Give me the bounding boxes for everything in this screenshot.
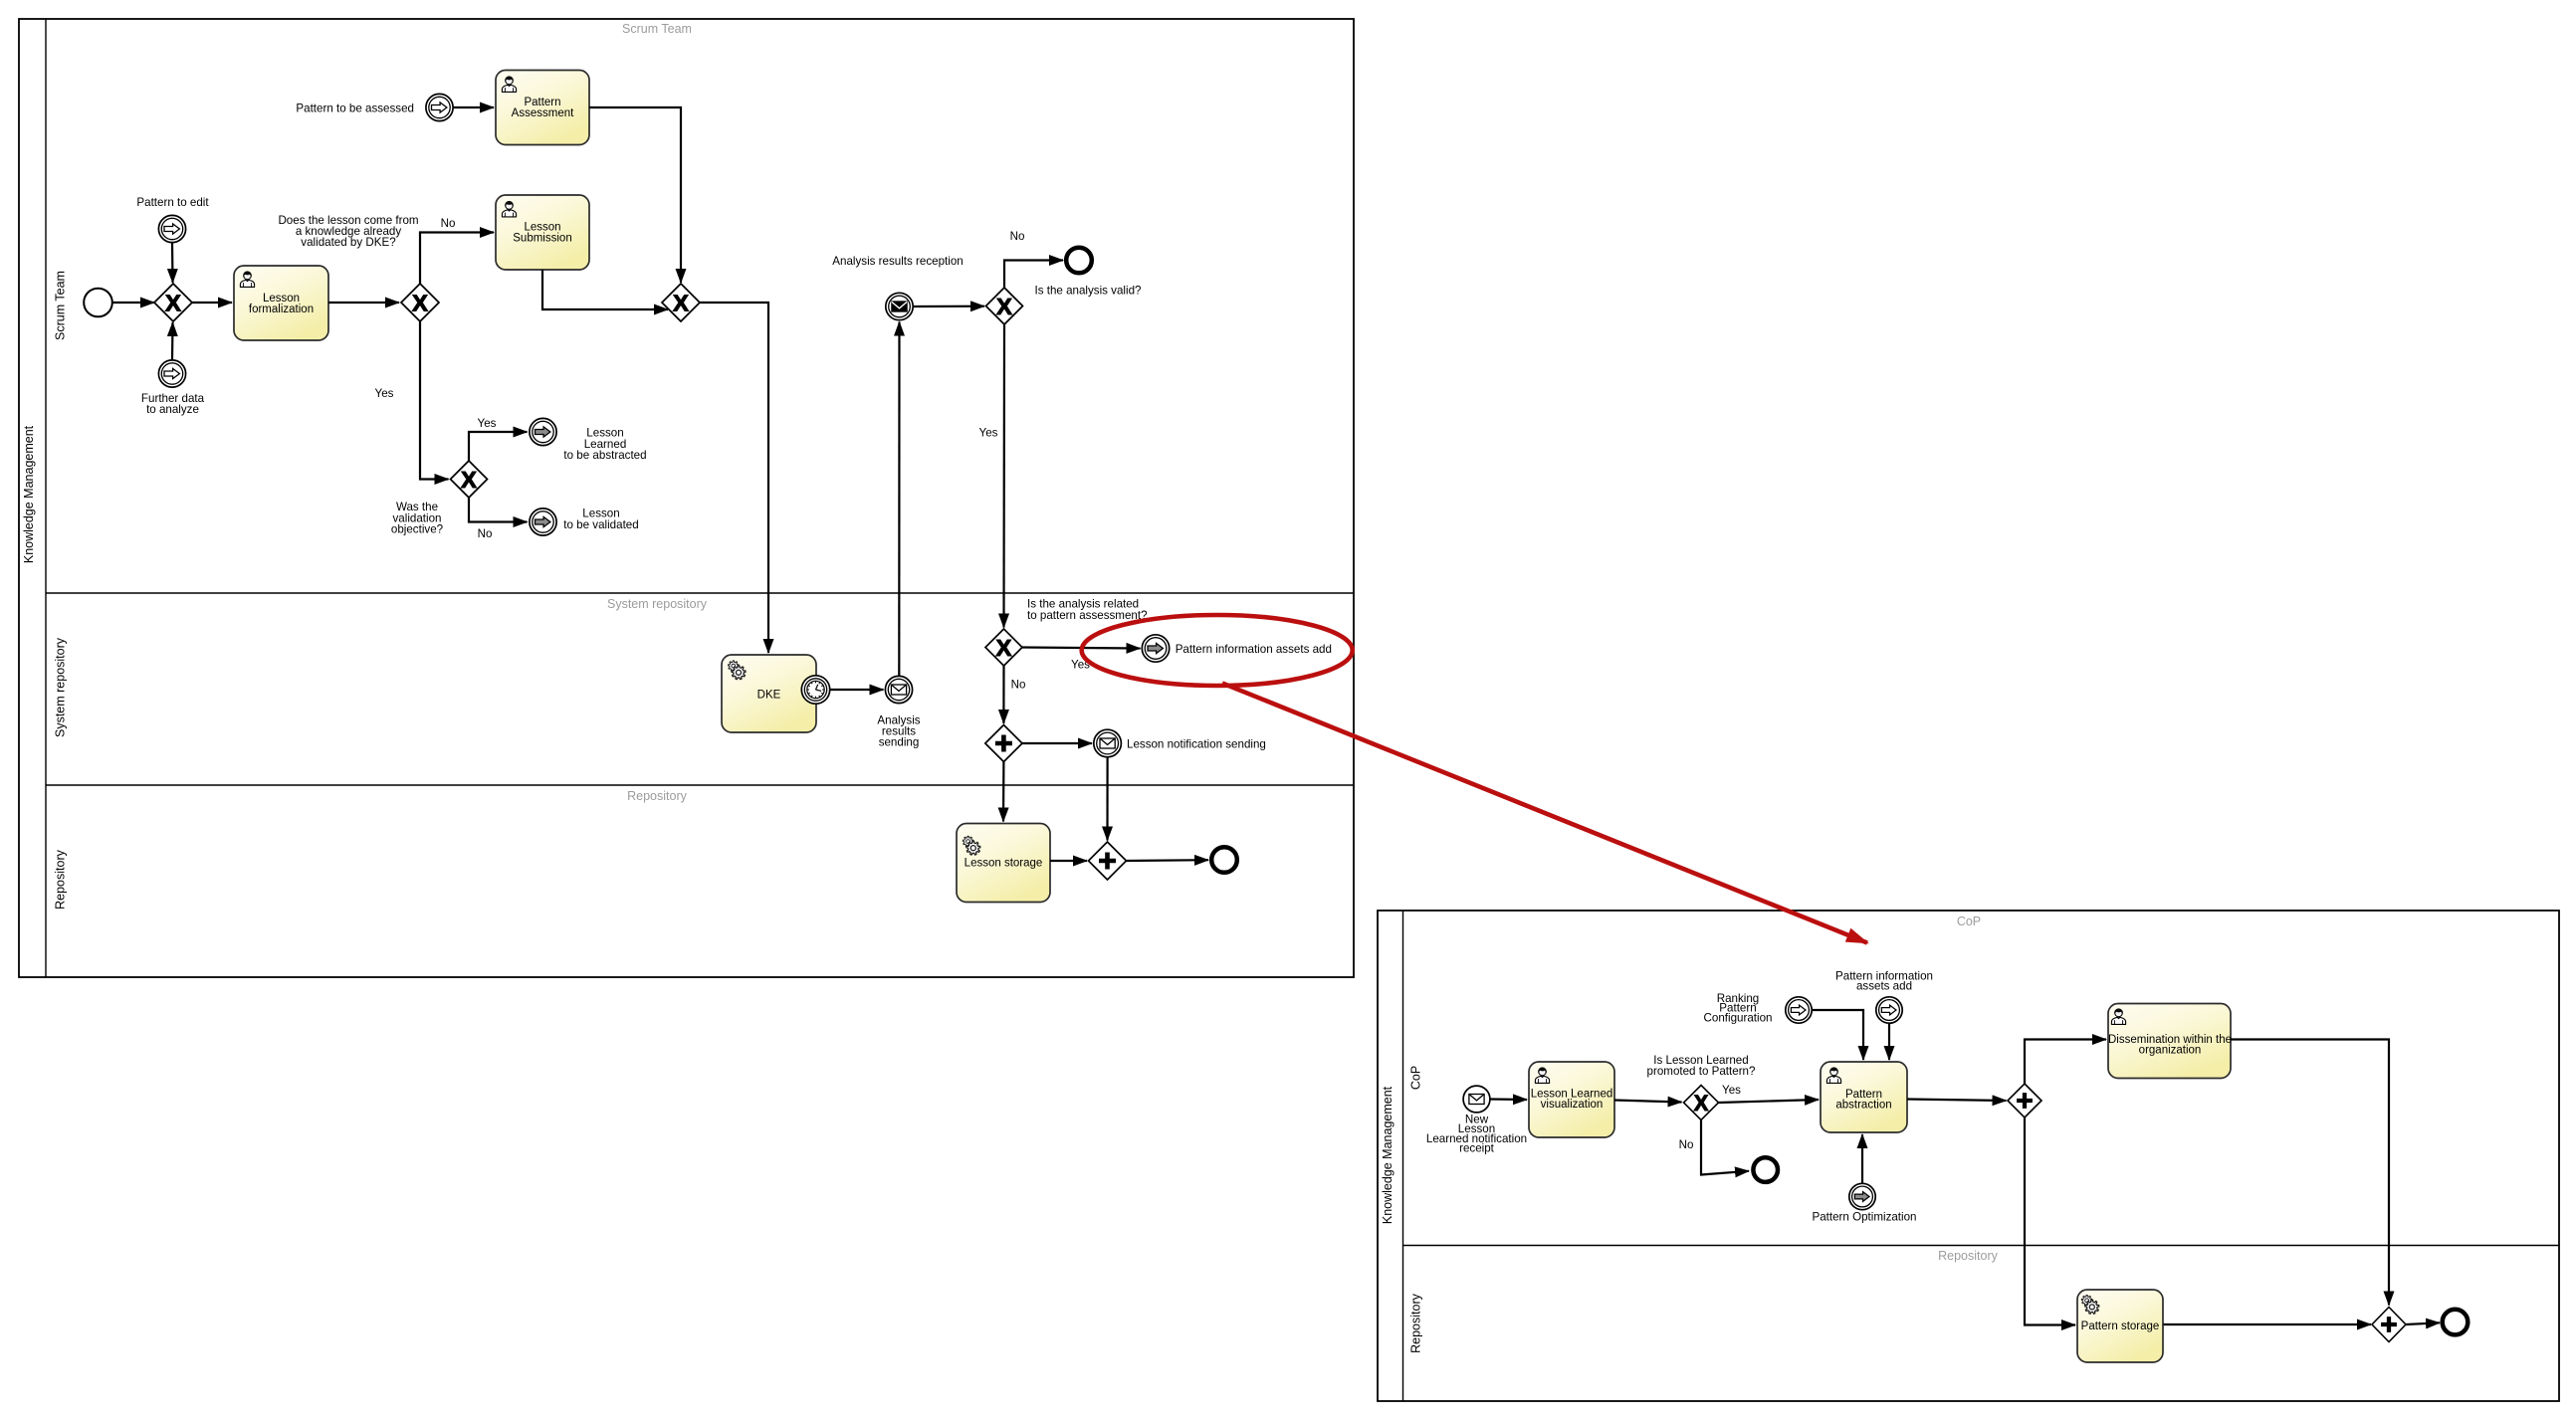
svg-text:Lesson storage: Lesson storage [965,858,1043,870]
lane Repository [46,785,1354,910]
svg-text:assets add: assets add [1856,979,1912,992]
wire Lesson formalization to G2 [328,302,399,304]
lane Repository (CoP pool) [1403,1246,2560,1353]
svg-text:Yes: Yes [1722,1084,1741,1097]
svg-text:Repository: Repository [1409,1293,1423,1352]
svg-text:Pattern to edit: Pattern to edit [136,196,209,209]
wire G6 to Lesson storage [1002,762,1005,822]
wire Ranking Pattern Configuration to Pattern abstraction [1812,1010,1863,1060]
link throw event Pattern information assets add [1142,635,1332,662]
wire G1 to Lesson formalization [192,302,232,304]
wire Pattern abstraction to G9 [1907,1100,2007,1102]
svg-text:Repository: Repository [627,789,687,803]
task Lesson formalization (user) [234,266,328,340]
svg-text:No: No [441,217,456,230]
message catch event Analysis results reception (filled envelope) [832,255,963,320]
svg-text:to pattern assessment?: to pattern assessment? [1027,609,1148,622]
label question Does the lesson come from a knowledge already validated by DKE? [278,214,418,249]
wire G7 to end event lesson stored [1127,859,1209,862]
wire G8 to end event not promoted (No) [1679,1120,1749,1175]
svg-text:Knowledge Management: Knowledge Management [22,425,36,563]
gateway G2 exclusive [401,284,439,321]
wire Dissemination within the organization to G10 [2231,1040,2389,1306]
message start event New Lesson Learned notification receipt [1426,1086,1527,1155]
wire start event to gateway G1 [112,302,154,304]
gateway G3 exclusive [662,284,700,321]
wire Pattern storage to G10 [2164,1323,2372,1325]
task Lesson Learned visualization (user) [1529,1062,1614,1137]
wire G8 to Pattern abstraction (Yes) [1719,1084,1820,1103]
wire Pattern information assets add to Pattern abstraction [1888,1023,1890,1060]
link throw event Lesson to be validated [530,508,639,536]
link catch event Pattern to be assessed [296,94,453,120]
boundary timer event on DKE [801,676,829,704]
svg-text:to analyze: to analyze [146,403,199,416]
wire Lesson storage to G7 [1050,860,1087,862]
svg-text:System repository: System repository [54,637,68,737]
end event analysis not valid [1066,248,1092,274]
wire G4 to Lesson to be validated (No) [469,498,528,540]
svg-text:Pattern information assets add: Pattern information assets add [1176,643,1332,656]
wire Further data to analyze to G1 [171,322,174,360]
link catch event Pattern information assets add (CoP) [1835,970,1933,1024]
task Pattern Assessment (user) [496,71,589,145]
task Pattern abstraction (user) [1821,1062,1907,1132]
wire Pattern to edit to G1 [171,243,174,283]
gateway Gvalid exclusive [986,285,1143,325]
gateway G1 exclusive [154,284,192,321]
task Dissemination within the organization (user) [2108,1004,2232,1079]
pool Knowledge Management (main process) [19,19,1354,977]
wire G5 to G6 (No) [1003,666,1025,723]
red highlight ellipse around Pattern information assets add [1082,615,1353,686]
svg-text:receipt: receipt [1459,1142,1495,1155]
svg-text:Pattern storage: Pattern storage [2081,1320,2160,1332]
gateway G9 parallel [2008,1084,2041,1117]
svg-text:abstraction: abstraction [1835,1099,1891,1111]
svg-text:Assessment: Assessment [512,107,574,119]
lane Scrum Team [54,22,692,340]
svg-text:Yes: Yes [478,417,497,430]
svg-text:DKE: DKE [757,690,781,702]
wire Gvalid to end event analysis not valid (No) [1004,230,1063,288]
link throw event Pattern Optimization [1812,1183,1916,1223]
message throw event Lesson notification sending [1094,729,1266,757]
svg-text:visualization: visualization [1541,1099,1604,1111]
svg-text:Lesson notification sending: Lesson notification sending [1127,738,1266,751]
svg-text:No: No [1010,230,1025,243]
svg-text:Configuration: Configuration [1704,1011,1773,1024]
wire G4 to Lesson Learned to be abstracted (Yes) [469,417,528,461]
wire Pattern Optimization to Pattern abstraction [1861,1134,1863,1183]
wire Gvalid to G5 (Yes) [979,324,1004,628]
svg-text:Repository: Repository [54,849,68,909]
lane System repository [46,593,1354,737]
end event not promoted [1753,1157,1778,1182]
gateway G10 parallel [2372,1308,2406,1342]
svg-text:CoP: CoP [1957,914,1981,928]
svg-text:System repository: System repository [607,597,708,611]
task Lesson storage (service) [957,824,1050,903]
svg-text:Pattern to be assessed: Pattern to be assessed [296,102,414,115]
task DKE (service) [722,655,816,732]
wire start to Lesson Learned visualization [1490,1098,1527,1101]
pool Knowledge Management (CoP process) [1378,911,2559,1401]
svg-text:to be abstracted: to be abstracted [563,449,646,462]
gateway G7 parallel [1089,842,1127,880]
label question Is the analysis related to pattern assessment? [1027,598,1148,623]
wire G3 to DKE [700,303,768,653]
svg-text:organization: organization [2139,1045,2202,1057]
wire Lesson Submission to G3 [542,270,668,309]
wire G9 to Pattern storage [2025,1117,2075,1325]
svg-text:No: No [1011,679,1026,692]
svg-text:Repository: Repository [1938,1249,1998,1263]
wire G5 to Pattern information assets add (Yes) [1022,648,1141,672]
svg-text:Is the analysis valid?: Is the analysis valid? [1035,285,1143,298]
lane CoP [1409,914,1982,1090]
svg-text:to be validated: to be validated [563,518,638,531]
label question Was the validation objective? [391,501,444,536]
gateway G4 exclusive [451,461,488,498]
svg-text:promoted to Pattern?: promoted to Pattern? [1647,1065,1756,1078]
svg-text:No: No [478,527,493,540]
link catch event Pattern to edit [136,196,209,243]
svg-text:formalization: formalization [249,304,314,315]
svg-text:Yes: Yes [979,427,998,440]
link catch event Further data to analyze [141,360,205,416]
svg-text:Knowledge Management: Knowledge Management [1381,1086,1395,1224]
message throw event Analysis results sending [877,676,920,748]
wire G2 to Lesson Submission (No) [420,217,494,284]
end event lesson stored [1211,847,1237,873]
svg-text:Pattern Optimization: Pattern Optimization [1812,1211,1916,1224]
start event [84,289,112,317]
gateway G6 parallel [985,725,1022,762]
svg-text:No: No [1679,1138,1694,1151]
wire Lesson notification sending to G7 [1106,757,1108,841]
gateway G5 exclusive [985,629,1022,666]
svg-text:Analysis results reception: Analysis results reception [832,255,963,268]
link throw event Lesson Learned to be abstracted [530,418,647,462]
wire Analysis results sending to Analysis results reception [898,322,900,677]
gateway G8 exclusive [1684,1086,1719,1120]
wire G10 to end event pattern stored [2406,1322,2440,1324]
link catch event Ranking Pattern Configuration [1704,992,1813,1025]
svg-text:validated by DKE?: validated by DKE? [301,236,396,249]
wire Pattern to be assessed to Pattern Assessment [453,106,494,108]
wire Pattern Assessment to G3 [589,107,681,283]
wire Lesson Learned visualization to G8 [1614,1101,1682,1103]
end event pattern stored [2443,1310,2469,1335]
svg-text:Submission: Submission [513,233,571,245]
svg-text:Scrum Team: Scrum Team [622,22,692,36]
svg-text:objective?: objective? [391,523,444,536]
red annotation arrow to CoP pool [1222,684,1867,943]
wire reception to Gvalid [913,305,984,307]
wire timer to Analysis results sending [830,689,884,691]
label question Is Lesson Learned promoted to Pattern? [1647,1054,1756,1078]
svg-text:CoP: CoP [1409,1066,1423,1090]
wire G9 to Dissemination within the organization [2025,1040,2106,1085]
svg-text:Yes: Yes [375,387,394,400]
task Pattern storage (service) [2077,1290,2163,1362]
svg-text:sending: sending [879,736,920,749]
svg-text:Scrum Team: Scrum Team [54,271,68,340]
wire G2 to G4 (Yes) [375,321,449,480]
wire G6 to Lesson notification sending [1022,742,1092,744]
task Lesson Submission (user) [496,195,589,270]
